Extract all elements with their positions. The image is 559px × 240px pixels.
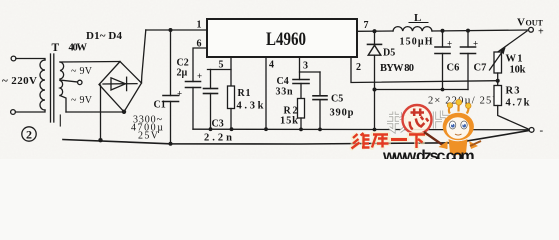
label 40W — [69, 43, 88, 54]
svg-text:4: 4 — [269, 60, 274, 71]
wire pin 3 stub — [299, 57, 301, 80]
power ground link line — [375, 89, 469, 91]
capacitor C7 lead top — [466, 29, 470, 47]
pin 6 label — [197, 39, 202, 50]
wire L to Vout — [432, 30, 529, 31]
label W1 value — [510, 65, 526, 76]
label C7 — [474, 63, 487, 74]
svg-text:+: + — [538, 27, 544, 38]
capacitor C6 lead bottom — [442, 54, 444, 90]
label C1 value — [131, 115, 163, 142]
resistor R3 — [494, 86, 502, 106]
wire secondary top to bridge — [60, 61, 120, 64]
junction C1 on rail — [169, 142, 173, 146]
label C7 plus — [473, 39, 478, 49]
label Vout — [517, 17, 544, 29]
label R2 — [284, 106, 298, 117]
svg-text:C3: C3 — [212, 119, 224, 130]
junction R1 — [230, 127, 234, 131]
bridge rectifier D1-D4 — [99, 62, 142, 112]
svg-text:-: - — [540, 125, 544, 137]
wire input rail to pin 1 — [146, 29, 207, 31]
transformer secondary winding upper — [60, 62, 64, 79]
wire osc node to C3 — [208, 69, 232, 71]
wire AC bottom to bridge — [66, 111, 123, 113]
pin 4 label — [269, 60, 274, 71]
svg-text:R1: R1 — [238, 88, 251, 99]
wire secondary bottom down — [60, 96, 66, 113]
svg-text:2.2n: 2.2n — [204, 133, 232, 144]
label R2 value — [280, 116, 298, 127]
label ~220V — [2, 75, 37, 87]
svg-text:2× 220µ/ 25V: 2× 220µ/ 25V — [428, 96, 500, 107]
svg-text:40W: 40W — [69, 43, 88, 54]
label R3 value — [506, 98, 530, 109]
inductor L — [393, 27, 432, 31]
svg-text:+: + — [447, 39, 452, 49]
junction D5 top — [372, 29, 376, 33]
svg-text:33n: 33n — [276, 87, 293, 98]
watermark xin glyph — [410, 109, 429, 130]
capacitor C7 — [461, 47, 476, 54]
watermark weiku red text glow — [352, 134, 425, 148]
capacitor C2 lead bottom — [192, 88, 194, 130]
label C3 value — [204, 133, 232, 144]
minus terminal — [529, 127, 534, 132]
label BYW80 — [380, 63, 414, 74]
label C6 plus — [447, 39, 452, 49]
svg-text:+: + — [473, 39, 478, 49]
label R1 value — [237, 101, 264, 112]
label C5 value — [330, 108, 354, 119]
label W1 — [506, 54, 523, 65]
wire C4 to R2 — [300, 84, 302, 99]
svg-text:R3: R3 — [506, 86, 520, 97]
wire pin 5 stub — [230, 57, 232, 86]
label D1~D4 — [86, 30, 123, 42]
svg-text:150µH: 150µH — [400, 37, 433, 48]
capacitor C7 lead bottom — [467, 54, 469, 90]
wire pin 7 output — [357, 30, 393, 32]
svg-text:390p: 390p — [330, 108, 354, 119]
svg-text:C5: C5 — [331, 94, 343, 105]
label C2 value — [177, 68, 188, 79]
junction D5 signal ground — [373, 128, 377, 132]
watermark zhao glyph — [387, 112, 412, 132]
svg-text:C7: C7 — [474, 63, 487, 74]
center tap terminal — [78, 80, 82, 84]
wire bridge + up to rail — [142, 30, 146, 83]
watermark weiku red text — [352, 133, 426, 149]
pin 3 label — [303, 61, 308, 72]
wire pin 4 to ground line — [265, 57, 267, 129]
center tap stub — [60, 80, 78, 82]
junction C3 — [209, 127, 213, 131]
label C6 — [447, 63, 460, 74]
svg-text:V: V — [517, 17, 525, 29]
signal ground line — [193, 128, 530, 131]
watermark pian glyph — [435, 111, 454, 132]
svg-text:7: 7 — [364, 20, 369, 31]
junction R2 — [299, 127, 303, 131]
wire pin 2 feedback — [351, 57, 498, 83]
wire pin 3 node to C5 — [300, 71, 321, 73]
capacitor C3 — [204, 89, 218, 94]
svg-text:C1: C1 — [154, 100, 166, 111]
transformer core — [51, 54, 54, 122]
capacitor C1 — [163, 96, 179, 102]
junction pin 4 — [264, 127, 268, 131]
capacitor C6 lead top — [441, 29, 445, 47]
label C1 plus — [177, 89, 182, 99]
watermark url text — [382, 148, 475, 165]
capacitor C4 — [293, 80, 309, 84]
svg-text:2µ: 2µ — [177, 68, 188, 79]
node C1 top junction — [169, 28, 173, 32]
capacitor C3 lead bottom — [210, 94, 212, 130]
label C3 — [212, 119, 224, 130]
potentiometer W1 — [490, 48, 505, 74]
AC input terminal bottom — [11, 110, 16, 115]
resistor R1 lead bottom — [230, 109, 232, 130]
svg-text:+: + — [197, 71, 202, 81]
svg-text:L4960: L4960 — [266, 29, 306, 50]
wire D5 down to signal ground — [374, 90, 376, 130]
svg-text:~ 9V: ~ 9V — [71, 66, 93, 77]
resistor R2 lead bottom — [300, 118, 302, 129]
svg-text:4.3k: 4.3k — [237, 101, 264, 112]
svg-text:25V: 25V — [138, 131, 159, 142]
watermark badge circle — [403, 105, 432, 134]
label C4 — [277, 76, 289, 87]
svg-text:BYW 80: BYW 80 — [380, 63, 414, 74]
label T — [52, 42, 60, 54]
label ~9V upper — [71, 66, 93, 77]
wire W1 to R3 — [497, 73, 499, 86]
symbol circled 2 — [22, 127, 36, 142]
bridge diode symbol — [103, 77, 137, 90]
label L — [409, 12, 428, 24]
resistor R1 — [228, 86, 235, 109]
capacitor C2 — [186, 82, 201, 88]
label minus — [540, 125, 544, 137]
capacitor C5 lead bottom — [319, 100, 321, 130]
wire AC top to primary — [16, 59, 45, 61]
svg-text:~ 9V: ~ 9V — [71, 95, 93, 106]
capacitor C1 lead bottom — [170, 102, 172, 145]
label R1 — [238, 88, 251, 99]
svg-text:T: T — [52, 42, 60, 54]
label C4 value — [276, 87, 293, 98]
svg-text:1: 1 — [197, 20, 202, 31]
svg-text:3: 3 — [303, 61, 308, 72]
label Vout plus — [538, 27, 544, 38]
wire AC bottom to primary — [15, 110, 45, 112]
ground rail — [63, 131, 529, 144]
label D5 — [383, 48, 395, 59]
wire R3 to minus terminal — [498, 106, 530, 130]
svg-text:2: 2 — [356, 62, 361, 73]
svg-text:15k: 15k — [280, 116, 298, 127]
label ~9V lower — [71, 95, 93, 106]
svg-text:4.7k: 4.7k — [506, 98, 530, 109]
watermark mascot — [424, 99, 481, 155]
capacitor C6 — [435, 47, 450, 54]
capacitor C5 lead top — [319, 72, 321, 96]
label L value — [400, 37, 433, 48]
svg-text:C6: C6 — [447, 63, 460, 74]
AC input terminal top — [11, 56, 16, 61]
transformer secondary winding lower — [60, 81, 63, 96]
Vout terminal — [529, 27, 534, 32]
label C6 C7 value — [428, 96, 500, 107]
svg-text:www.dzsc.com: www.dzsc.com — [382, 148, 475, 159]
svg-text:+: + — [177, 89, 182, 99]
wire bridge - down to ground rail — [100, 85, 102, 140]
stray core mark — [59, 115, 61, 126]
junction feedback at W1 R3 — [496, 79, 500, 83]
label C2 plus — [197, 71, 202, 81]
wire rail to W1 — [498, 31, 527, 52]
junction D5 anode gnd — [373, 88, 377, 92]
pin 2 label — [356, 62, 361, 73]
svg-text:D5: D5 — [383, 48, 395, 59]
capacitor C1 lead top — [170, 30, 172, 96]
pin 7 label — [364, 20, 369, 31]
pin 1 label — [197, 20, 202, 31]
junction bridge - on rail — [98, 138, 102, 142]
label C1 — [154, 100, 166, 111]
svg-text:D1~ D4: D1~ D4 — [86, 30, 123, 42]
transformer T primary winding — [40, 60, 45, 110]
pin 5 label — [219, 60, 224, 71]
svg-text:C4: C4 — [277, 76, 289, 87]
junction bridge bottom — [122, 110, 126, 114]
svg-text:W 1: W 1 — [506, 54, 523, 65]
diode D5 — [368, 31, 382, 89]
label C2 — [177, 58, 189, 69]
label R3 — [506, 86, 520, 97]
svg-text:2: 2 — [26, 128, 32, 142]
resistor R2 — [298, 99, 305, 119]
wire pin 6 — [193, 48, 207, 82]
svg-text:~ 220V: ~ 220V — [2, 75, 37, 87]
capacitor C5 — [313, 96, 327, 100]
svg-text:10k: 10k — [510, 65, 526, 76]
junction C5 — [318, 127, 322, 131]
label C5 — [331, 94, 343, 105]
IC U1 L4960 — [207, 19, 357, 57]
junction C6 gnd — [441, 88, 445, 92]
capacitor C3 lead top — [210, 70, 212, 89]
